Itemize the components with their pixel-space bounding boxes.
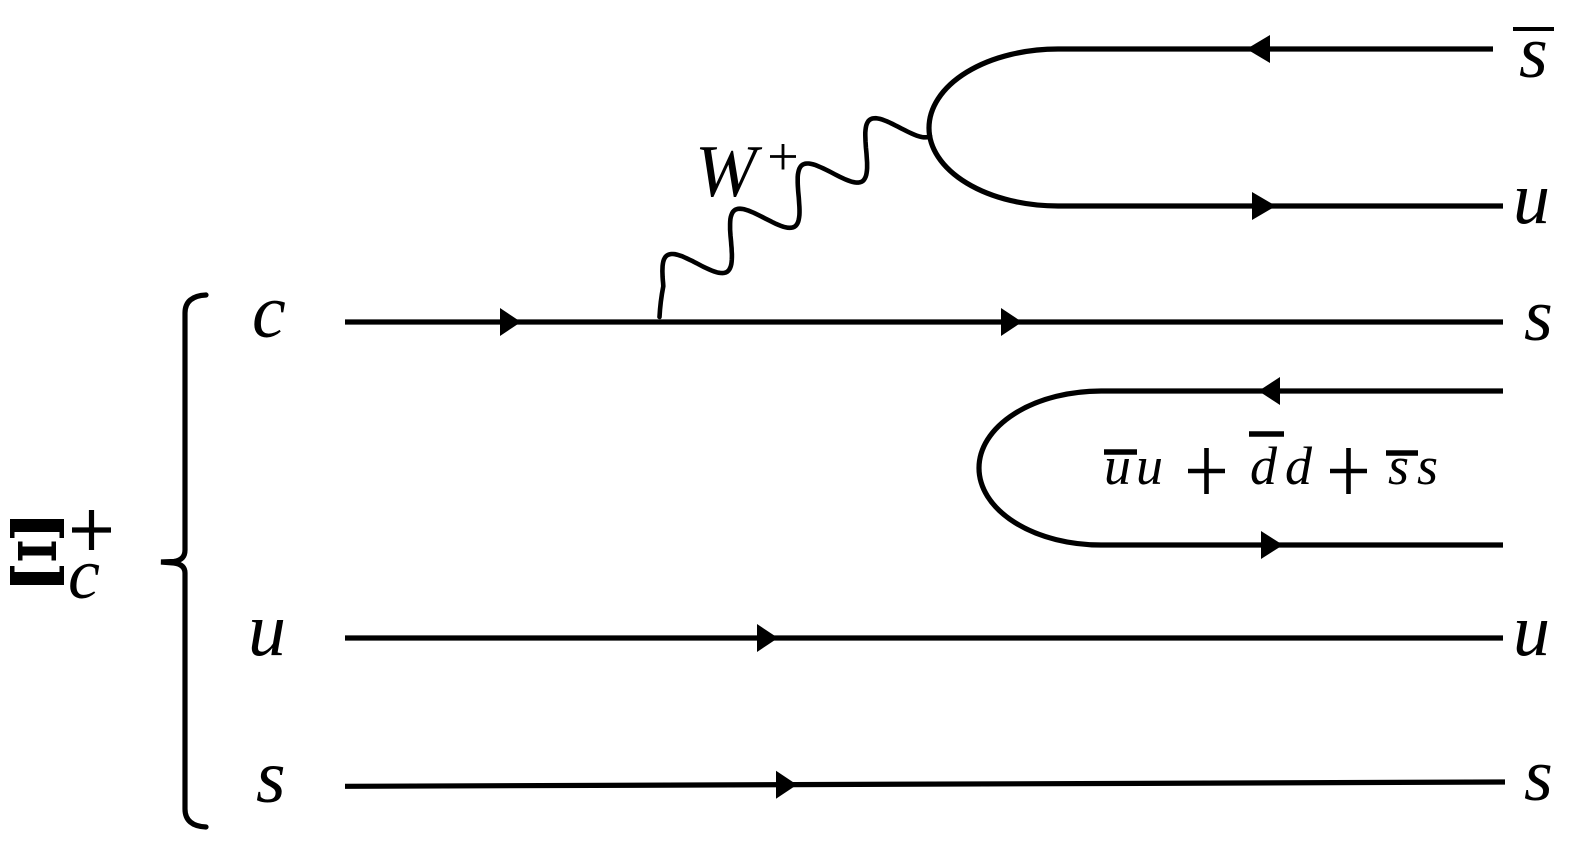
quark pair creation arc (sea quarks) <box>979 391 1101 545</box>
upper sea quark line <box>1101 388 1503 393</box>
svg-text:d: d <box>1285 436 1313 496</box>
anti-strange line from W <box>1058 46 1493 51</box>
fermion line u to u (spectator) <box>345 635 1503 640</box>
overbar of dbar in sea label <box>1249 431 1284 437</box>
svg-text:u: u <box>1513 158 1550 240</box>
svg-text:u: u <box>1513 590 1550 672</box>
svg-text:c: c <box>252 270 286 354</box>
lower sea quark line <box>1101 542 1503 547</box>
svg-text:s: s <box>1524 275 1553 357</box>
brace grouping Xi_c quarks <box>161 295 206 827</box>
sea label first plus <box>1188 448 1225 494</box>
fermion line c to s <box>345 319 1503 324</box>
svg-text:u: u <box>1136 436 1163 496</box>
W boson wiggly line <box>660 118 931 317</box>
svg-text:u: u <box>1104 436 1131 496</box>
u quark line from W <box>1058 203 1503 208</box>
W decay fork arc (sbar-u pair) <box>929 49 1058 206</box>
svg-text:c: c <box>68 534 100 614</box>
svg-text:W: W <box>695 131 763 213</box>
arrow on sbar line (left) <box>1247 35 1271 63</box>
overbar of sbar (top right) <box>1513 27 1554 31</box>
sea label second plus <box>1330 448 1367 494</box>
svg-text:s: s <box>1524 735 1553 817</box>
overbar of ubar in sea label <box>1104 449 1137 455</box>
overbar of sbar in sea label <box>1386 450 1418 456</box>
arrow on s line <box>776 771 797 799</box>
svg-text:s: s <box>1388 436 1409 496</box>
fermion line s to s (spectator) <box>345 782 1505 786</box>
svg-text:s: s <box>256 735 286 819</box>
svg-text:d: d <box>1250 436 1278 496</box>
arrow on u-from-W line <box>1252 192 1276 220</box>
svg-text:u: u <box>248 588 286 672</box>
arrow on upper sea line (left) <box>1259 377 1281 405</box>
arrow on u line <box>757 624 778 652</box>
arrow on lower sea line (right) <box>1261 531 1283 559</box>
baryon label Xi <box>10 519 64 585</box>
svg-text:s: s <box>1519 12 1548 94</box>
W boson label superscript plus <box>770 144 796 170</box>
svg-text:s: s <box>1417 436 1438 496</box>
baryon label superscript plus <box>72 510 111 550</box>
arrow on c line (second) <box>1001 308 1022 336</box>
arrow on c line (first) <box>500 308 521 336</box>
